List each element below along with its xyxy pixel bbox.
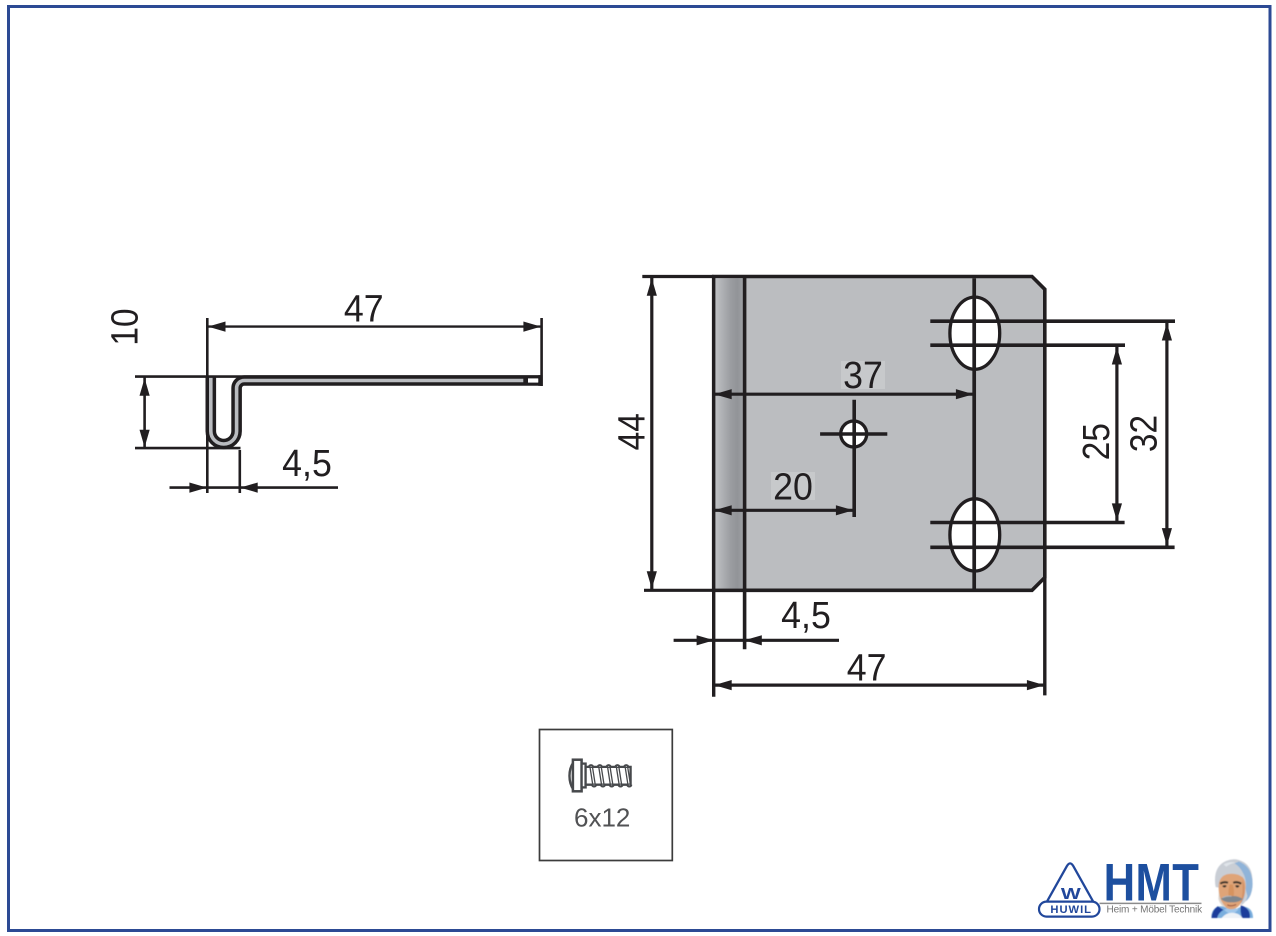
svg-text:Heim + Möbel Technik: Heim + Möbel Technik xyxy=(1107,904,1204,915)
svg-text:4,5: 4,5 xyxy=(282,442,332,484)
svg-text:W: W xyxy=(1061,885,1082,903)
svg-text:47: 47 xyxy=(344,287,384,329)
svg-text:32: 32 xyxy=(1123,415,1165,452)
svg-text:HUWIL: HUWIL xyxy=(1050,904,1092,916)
svg-text:4,5: 4,5 xyxy=(781,594,831,636)
svg-text:6x12: 6x12 xyxy=(574,803,630,833)
svg-text:47: 47 xyxy=(847,647,887,689)
svg-text:37: 37 xyxy=(843,354,883,396)
svg-text:10: 10 xyxy=(104,308,146,345)
svg-text:44: 44 xyxy=(610,413,652,450)
svg-text:20: 20 xyxy=(773,465,813,507)
svg-text:25: 25 xyxy=(1075,423,1117,460)
